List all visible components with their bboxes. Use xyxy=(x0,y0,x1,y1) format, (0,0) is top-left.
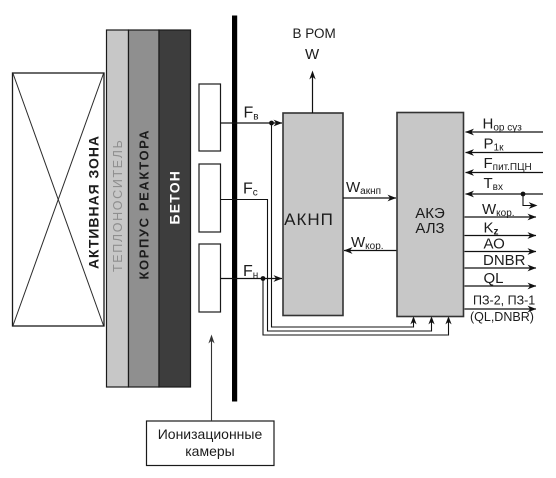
svg-text:камеры: камеры xyxy=(185,443,234,459)
wire output DNBR xyxy=(465,267,537,269)
svg-text:АКТИВНАЯ ЗОНА: АКТИВНАЯ ЗОНА xyxy=(86,135,102,269)
svg-text:Wкор.: Wкор. xyxy=(482,201,515,219)
svg-text:АКНП: АКНП xyxy=(284,210,334,229)
svg-text:Р1к: Р1к xyxy=(484,136,505,154)
wire output Wкор. xyxy=(465,216,537,218)
wire input Fпит.ПЦН xyxy=(466,172,544,174)
svg-text:Wкор.: Wкор. xyxy=(351,234,384,252)
block АКЭ АЛЗ xyxy=(397,113,464,317)
wire Fв drop down xyxy=(272,123,413,327)
svg-text:Wакнп: Wакнп xyxy=(346,179,381,197)
ionization chamber 2 (middle) xyxy=(199,164,221,232)
wire output QL xyxy=(465,285,537,287)
active zone box (АКТИВНАЯ ЗОНА) xyxy=(13,73,105,326)
svg-text:Твх: Твх xyxy=(484,175,503,193)
wire Fн to АКНП xyxy=(221,278,283,280)
wire Fн up arrow into АКЭ АЛЗ xyxy=(448,318,450,336)
wire Wакнп АКНП to АКЭ АЛЗ xyxy=(343,197,396,199)
node Твх junction xyxy=(521,192,526,197)
ionization chambers callout box xyxy=(147,421,275,466)
svg-text:ПЗ-2, ПЗ-1: ПЗ-2, ПЗ-1 xyxy=(473,294,535,308)
svg-text:АО: АО xyxy=(484,236,505,253)
svg-text:Fс: Fс xyxy=(243,181,258,199)
svg-text:Нор суз: Нор суз xyxy=(483,116,523,134)
coolant bar (ТЕПЛОНОСИТЕЛЬ) xyxy=(107,30,129,387)
svg-text:DNBR: DNBR xyxy=(483,252,526,269)
biological shield thick line xyxy=(232,16,237,402)
svg-text:КОРПУС РЕАКТОРА: КОРПУС РЕАКТОРА xyxy=(137,129,152,280)
svg-text:Fв: Fв xyxy=(244,105,259,123)
svg-text:Fпит.ПЦН: Fпит.ПЦН xyxy=(484,155,532,173)
svg-text:АЛЗ: АЛЗ xyxy=(415,220,444,237)
svg-text:Ионизационные: Ионизационные xyxy=(158,426,263,442)
node Fв junction xyxy=(269,121,274,126)
svg-text:БЕТОН: БЕТОН xyxy=(167,170,183,225)
wire output Kz xyxy=(465,235,537,237)
callout arrow up to chambers xyxy=(211,337,213,421)
wire output АО xyxy=(465,251,537,253)
wire Fв up arrow into АКЭ АЛЗ xyxy=(413,318,415,328)
wire input Р1к xyxy=(466,152,544,154)
wire input Твх xyxy=(466,193,544,195)
wire Fн drop down xyxy=(263,279,448,336)
svg-text:W: W xyxy=(305,46,320,63)
wire Wкор. АКЭ АЛЗ to АКНП xyxy=(344,250,397,252)
svg-text:ТЕПЛОНОСИТЕЛЬ: ТЕПЛОНОСИТЕЛЬ xyxy=(111,139,125,272)
node Fн junction xyxy=(261,276,266,281)
wire Твх branch out xyxy=(523,194,534,206)
wire input Нор суз xyxy=(466,131,544,133)
wire Fв to АКНП xyxy=(221,122,283,124)
reactor vessel bar (КОРПУС РЕАКТОРА) xyxy=(129,30,160,387)
svg-text:В РОМ: В РОМ xyxy=(293,26,336,41)
wire Fс up arrow into АКЭ АЛЗ xyxy=(431,318,433,332)
concrete bar (БЕТОН) xyxy=(159,30,191,387)
block АКНП xyxy=(283,113,343,316)
svg-text:QL: QL xyxy=(484,270,504,287)
wire W output up from АКНП xyxy=(312,73,314,113)
wire output ПЗ-2 ПЗ-1 xyxy=(465,308,537,310)
ionization chamber 1 (upper) xyxy=(199,84,221,151)
ionization chamber 3 (lower) xyxy=(199,244,221,312)
svg-text:(QL,DNBR): (QL,DNBR) xyxy=(470,310,534,324)
wire Fс xyxy=(221,200,431,332)
